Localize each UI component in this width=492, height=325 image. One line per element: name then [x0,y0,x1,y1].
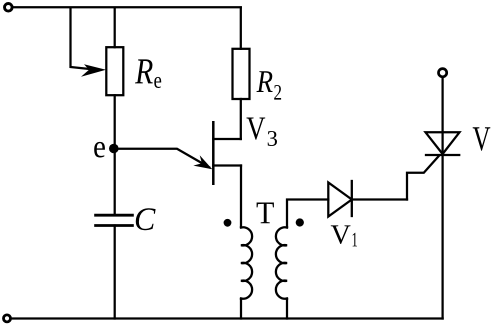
terminal bottom-left [4,315,11,322]
label V1 sub 1 [353,233,357,247]
terminal top-left [5,4,13,12]
label Re sub e [154,77,161,88]
wire diode to gate [352,198,407,200]
transformer T primary winding [241,227,252,298]
wire primary to bottom rail [240,299,242,319]
resistor R2 [233,49,250,99]
node e dot [109,144,119,154]
primary polarity dot [224,219,232,227]
secondary polarity dot [296,218,304,226]
label node e [94,142,105,158]
diode V1 [328,181,352,217]
wire left rail middle [114,95,116,215]
wire bottom rail [13,317,443,319]
transformer T secondary winding [276,227,287,298]
terminal top-right [439,69,447,77]
thyristor V [426,132,460,155]
label V thyristor [473,127,491,151]
label V1 V [331,225,351,244]
label Re R [135,59,153,83]
wire left rail lower [114,226,116,319]
capacitor C [96,215,133,225]
resistor Re [106,47,123,95]
wire R2 drop [240,8,242,49]
label R2 sub 2 [274,85,281,100]
wire top rail [13,6,241,8]
label V3 V [247,118,266,140]
wire thyristor vertical [441,78,443,319]
wire secondary to bottom rail [286,299,288,319]
wire base1 down [240,166,242,228]
wire secondary top [287,200,328,228]
label T [257,203,274,224]
label V3 sub 3 [268,131,277,146]
emitter arrowhead [193,155,212,169]
label C [136,208,156,230]
wire R2 to base2 [240,99,242,139]
wire left rail upper [114,8,116,47]
label R2 R [257,71,273,92]
wire gate step [407,156,439,199]
wire Re wiper branch [71,8,93,69]
wiper arrowhead [81,64,106,77]
wire emitter horizontal [114,149,209,167]
transistor V3 [213,122,241,184]
